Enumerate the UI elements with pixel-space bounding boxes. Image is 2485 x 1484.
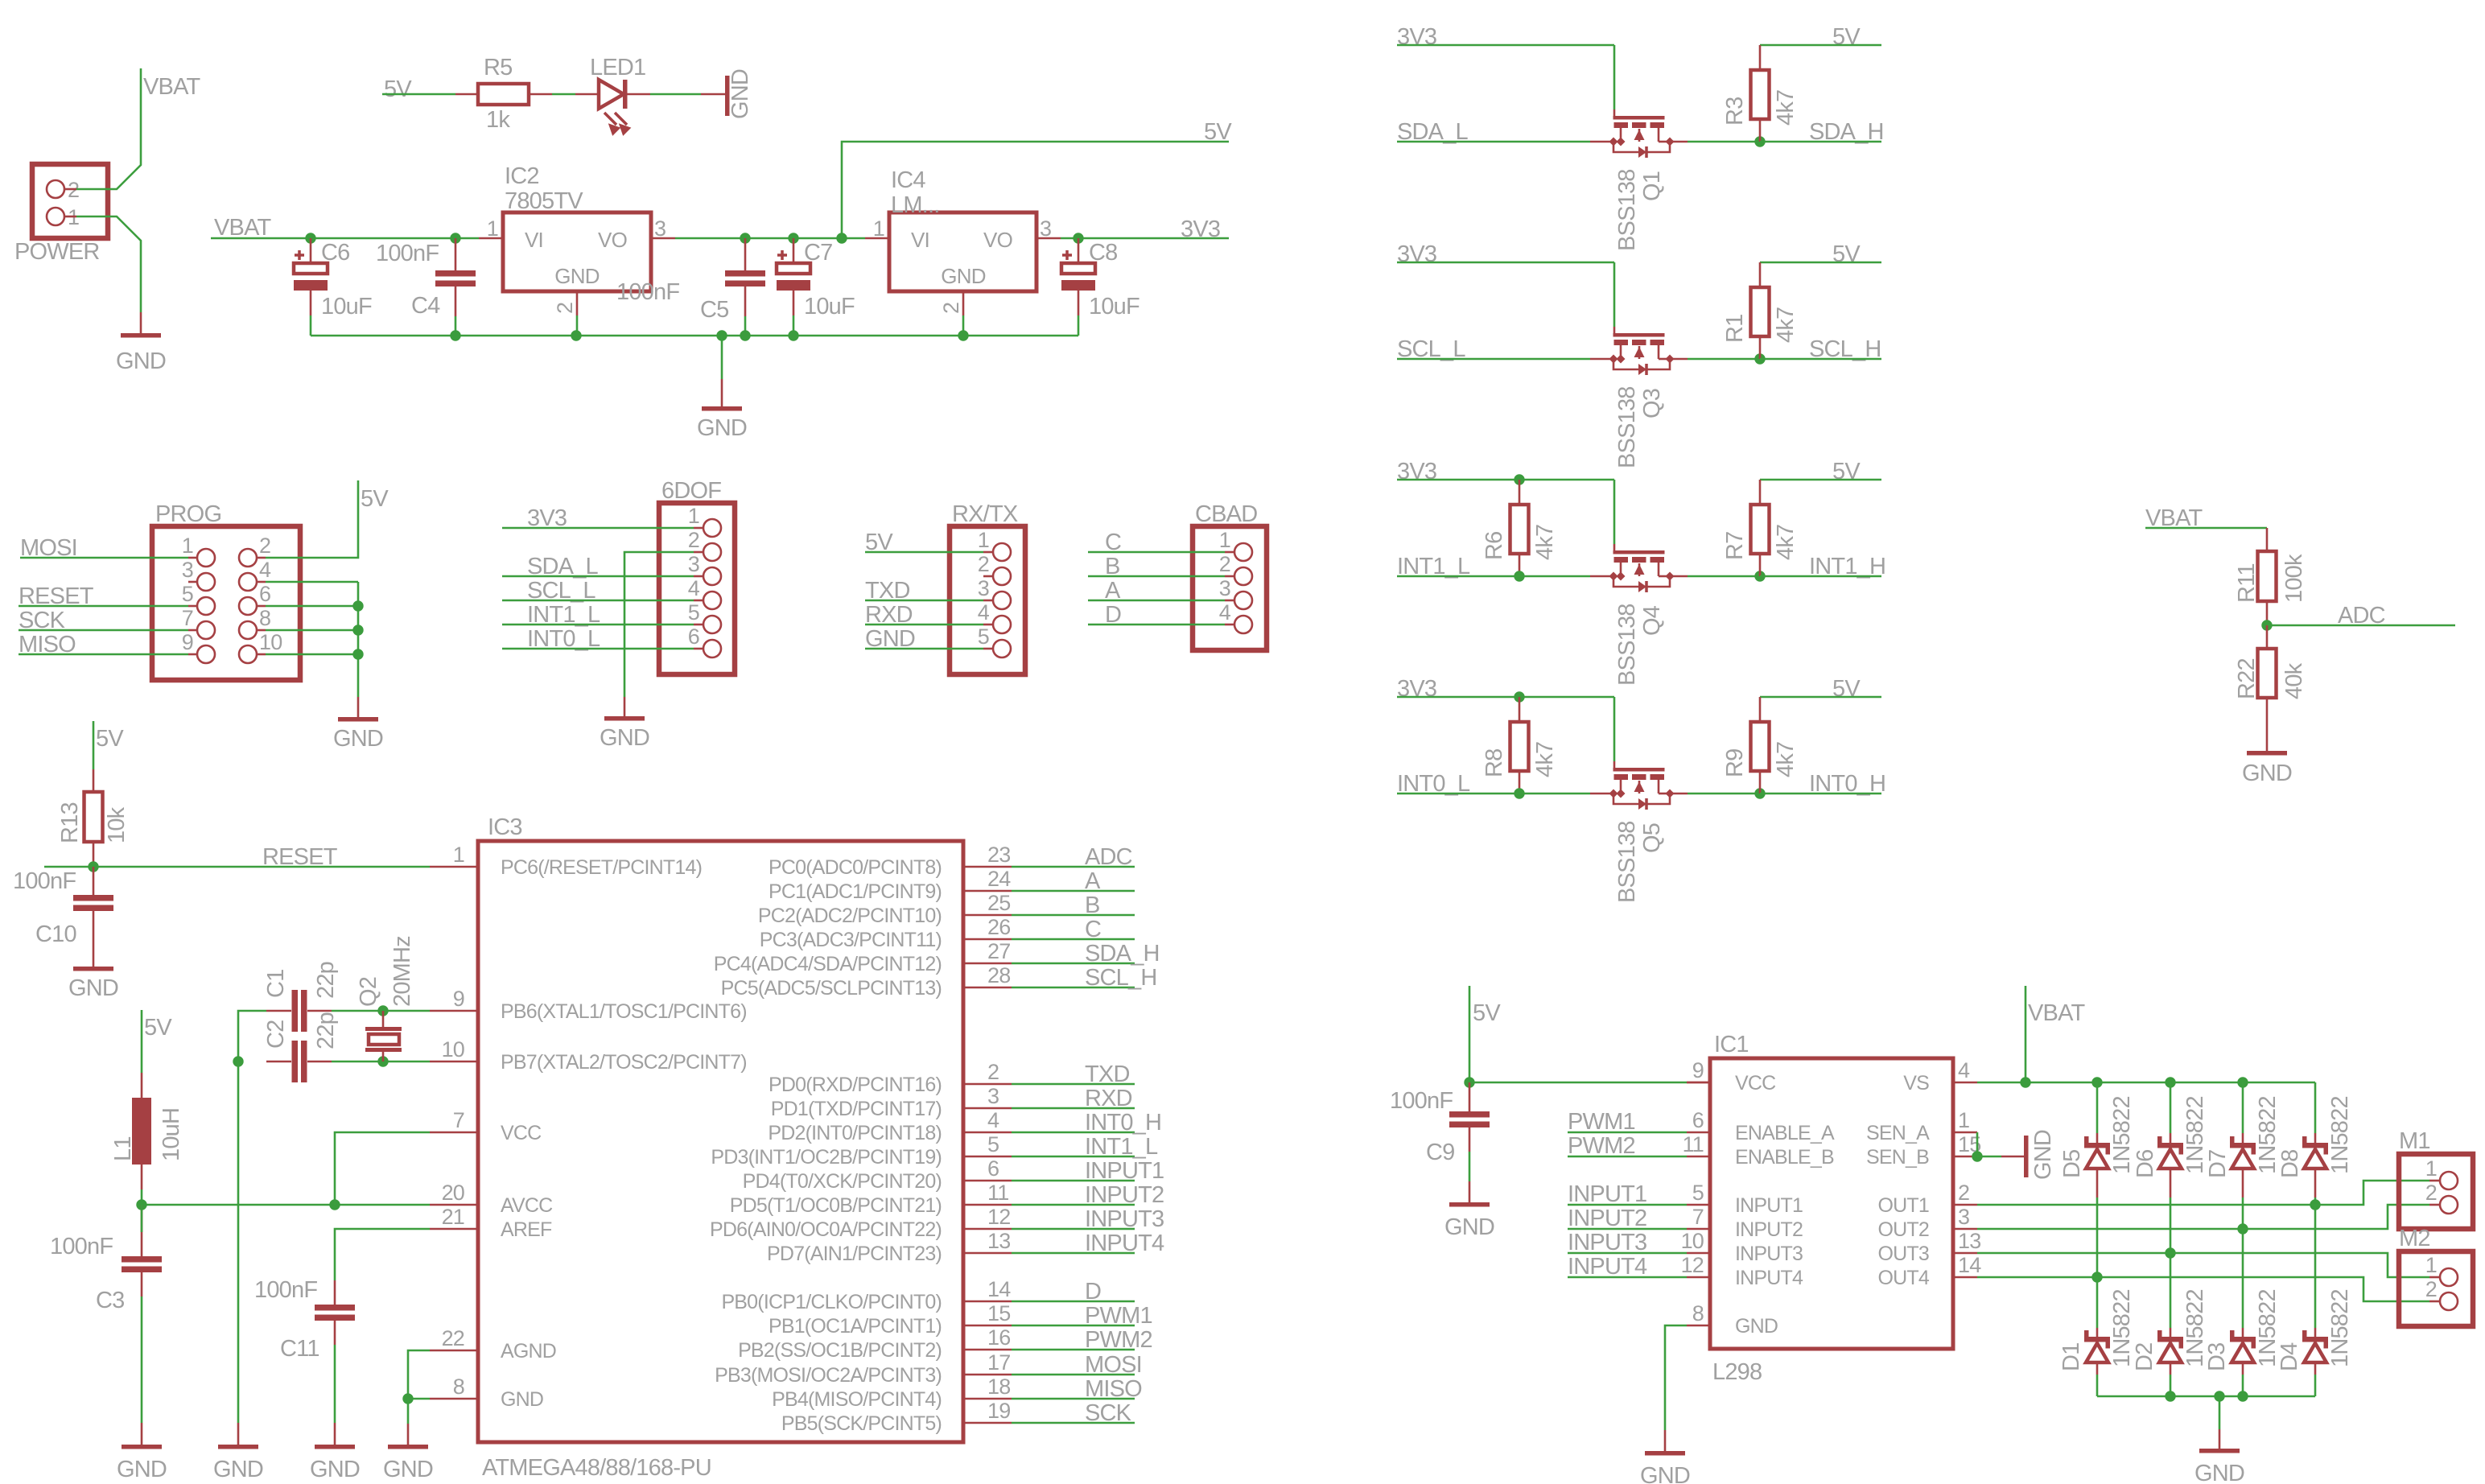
svg-text:27: 27 (987, 939, 1010, 963)
svg-text:8: 8 (1692, 1301, 1704, 1325)
junction R7/INT1_H (1754, 571, 1765, 581)
wire C7 to bottom rail (793, 315, 795, 336)
resistor R11 (2258, 551, 2277, 601)
M2 pin 2 circle (2440, 1292, 2458, 1310)
C3 ground lead (141, 1423, 143, 1445)
junction C4/rail (450, 233, 460, 243)
PROG pin 1 circle (197, 549, 215, 567)
wire VBAT rail to IC2 (211, 237, 479, 240)
wire D8 to OUT row (2314, 1198, 2317, 1205)
svg-text:19: 19 (987, 1399, 1010, 1423)
capacitor C3 top lead (141, 1205, 143, 1232)
PROG pin 9 stub (188, 653, 197, 656)
junction 3V3/R6 (1514, 474, 1524, 484)
svg-text:C10: C10 (35, 921, 76, 947)
svg-text:4: 4 (987, 1108, 999, 1132)
svg-text:9: 9 (182, 630, 193, 654)
diode D6 bottom lead (2170, 1169, 2172, 1198)
IC2 pin 2 (GND) stub (576, 291, 579, 315)
svg-text:24: 24 (987, 867, 1011, 891)
svg-text:GND: GND (310, 1457, 360, 1482)
IC3 pin 25 stub (963, 914, 1012, 917)
capacitor C2 22p (292, 1041, 299, 1082)
C9 ground lead (1469, 1181, 1471, 1202)
svg-text:2: 2 (259, 534, 270, 558)
inductor L1 bottom lead (141, 1165, 143, 1189)
junction R11/R22/ADC (2261, 620, 2272, 630)
IC3 pin 5 stub (963, 1156, 1012, 1158)
supply 5V symbol (IC1) (1469, 986, 1471, 1082)
wire net B (1012, 914, 1135, 917)
LED LED1 cathode lead (627, 93, 650, 96)
diode D4 top lead (2314, 1328, 2317, 1337)
svg-text:8: 8 (259, 606, 270, 630)
junction D2/bottom rail (2165, 1391, 2175, 1401)
svg-text:3: 3 (1219, 576, 1230, 600)
CBAD pin 3 stub (1225, 600, 1234, 602)
svg-text:R1: R1 (1722, 315, 1748, 343)
wire POWER pin2 to VBAT riser (76, 68, 141, 189)
capacitor C3 bottom lead (141, 1272, 143, 1296)
junction D3/bottom rail (2237, 1391, 2248, 1401)
svg-text:7: 7 (453, 1108, 464, 1132)
svg-text:6: 6 (688, 625, 699, 649)
svg-text:Q4: Q4 (1639, 605, 1665, 636)
CBAD pin 2 stub (1225, 575, 1234, 578)
wire SEN_B to GND (1977, 1156, 2001, 1158)
IC3 pin 12 stub (963, 1228, 1012, 1230)
svg-text:Q3: Q3 (1639, 389, 1665, 418)
svg-text:2: 2 (978, 552, 989, 576)
svg-text:SEN_A: SEN_A (1866, 1122, 1930, 1144)
svg-text:7: 7 (1692, 1205, 1704, 1229)
svg-text:INPUT4: INPUT4 (1568, 1254, 1647, 1280)
svg-text:INPUT2: INPUT2 (1085, 1182, 1164, 1208)
svg-text:C1: C1 (263, 970, 289, 998)
junction 3V3/R8 (1514, 691, 1524, 702)
resistor R5 (478, 84, 529, 105)
PROG pin 5 circle (197, 597, 215, 615)
svg-text:INT1_L: INT1_L (1085, 1134, 1158, 1160)
svg-text:D5: D5 (2059, 1150, 2085, 1178)
wire 3V3 to 6DOF pin1 (502, 527, 694, 530)
header RX/TX box (950, 526, 1025, 674)
svg-text:ADC: ADC (2338, 603, 2385, 629)
svg-text:INPUT4: INPUT4 (1735, 1267, 1803, 1289)
wire net RXD (1012, 1107, 1135, 1110)
junction R3/SDA_H (1754, 136, 1765, 146)
IC1 pin 3 stub (1953, 1228, 1977, 1230)
LED LED1 anode lead (575, 93, 599, 96)
microcontroller IC3 box (478, 841, 963, 1442)
svg-text:100nF: 100nF (1390, 1088, 1453, 1114)
diode D1 bottom lead (2096, 1362, 2099, 1375)
svg-text:13: 13 (987, 1229, 1010, 1253)
wire VS rail (1977, 1082, 2315, 1084)
svg-text:15: 15 (987, 1301, 1010, 1325)
wire D5 to OUT row (2096, 1198, 2099, 1277)
svg-text:INPUT2: INPUT2 (1735, 1218, 1803, 1241)
wire L1 to AVCC row (141, 1189, 143, 1205)
capacitor C1 22p (292, 990, 299, 1032)
svg-text:D: D (1085, 1279, 1101, 1305)
junction D5/OUT4 (2091, 1272, 2102, 1282)
diode D7 1N5822 schottky (2230, 1143, 2256, 1148)
svg-text:PD5(T1/OC0B/PCINT21): PD5(T1/OC0B/PCINT21) (730, 1194, 942, 1217)
resistor R22 bottom lead (2266, 698, 2269, 751)
svg-text:17: 17 (987, 1350, 1010, 1375)
svg-text:PWM2: PWM2 (1085, 1327, 1152, 1353)
resistor R6 bottom lead (1519, 554, 1521, 576)
transistor Q5 BSS138 (1613, 768, 1665, 772)
M1 pin 2 circle (2440, 1196, 2458, 1214)
wire 5V rail (INT1_H) (1760, 479, 1881, 481)
IC1 pin 10 stub (1687, 1252, 1710, 1255)
svg-text:Q1: Q1 (1639, 171, 1665, 201)
svg-text:D1: D1 (2058, 1343, 2084, 1371)
capacitor C4 100nF (435, 270, 476, 277)
svg-text:AGND: AGND (501, 1340, 556, 1362)
wire C8 to bottom rail (1078, 315, 1080, 336)
wire PWM2 to IC1 (1568, 1156, 1687, 1158)
resistor R5 left lead (455, 93, 478, 96)
capacitor C5 top lead (744, 238, 747, 270)
IC4 pin 3 stub (1036, 237, 1061, 240)
svg-text:2: 2 (2425, 1277, 2437, 1301)
supply 5V symbol above L1 (141, 1010, 143, 1073)
svg-text:GND: GND (941, 264, 985, 288)
wire gate riser Q3 (1613, 262, 1616, 327)
CBAD pin 2 circle (1234, 567, 1252, 585)
PROG pin 10 circle (239, 645, 257, 663)
IC3 pin 18 stub (963, 1398, 1012, 1400)
M1 pin 1 stub (2429, 1180, 2440, 1182)
wire net TXD (1012, 1083, 1135, 1086)
svg-text:1: 1 (1219, 528, 1230, 552)
wire net SDA_H (1012, 963, 1135, 965)
svg-text:R7: R7 (1722, 532, 1748, 560)
svg-text:INPUT2: INPUT2 (1568, 1206, 1646, 1231)
svg-text:3: 3 (654, 216, 666, 241)
svg-text:RXD: RXD (1085, 1086, 1132, 1111)
svg-text:9: 9 (1692, 1058, 1704, 1082)
resistor R8 (1510, 722, 1529, 771)
junction VBAT/VS (2020, 1077, 2030, 1087)
IC1 ground lead (1664, 1430, 1667, 1451)
capacitor C9 top lead (1469, 1082, 1471, 1111)
PROG pin 4 circle (239, 573, 257, 591)
wire ADC net (2267, 625, 2455, 627)
wire SCL_L (1397, 358, 1590, 361)
resistor R7 (1751, 505, 1770, 554)
junction D7/OUT2 (2237, 1223, 2248, 1234)
svg-text:3V3: 3V3 (1181, 216, 1220, 242)
junction PROG pin10 (352, 649, 363, 659)
M1 pin 2 stub (2429, 1204, 2440, 1206)
svg-text:AREF: AREF (501, 1218, 552, 1241)
wire C9 to GND (1469, 1152, 1471, 1181)
wire VS to D6 (2170, 1082, 2172, 1133)
wire GND pin8 row (408, 1398, 430, 1400)
svg-text:CBAD: CBAD (1195, 501, 1257, 527)
svg-text:POWER: POWER (14, 239, 100, 265)
wire D7 to OUT row (2242, 1198, 2244, 1229)
ground symbol under C11 (315, 1445, 355, 1449)
svg-text:16: 16 (987, 1325, 1010, 1350)
M2 pin 1 stub (2429, 1276, 2440, 1279)
diode D2 bottom lead (2170, 1362, 2172, 1375)
diode D5 bottom lead (2096, 1169, 2099, 1198)
junction D5/VS (2091, 1077, 2102, 1087)
IC3 pin 22 stub (430, 1350, 478, 1352)
svg-text:PC6(/RESET/PCINT14): PC6(/RESET/PCINT14) (501, 856, 702, 879)
wire D2 to bottom rail (2170, 1375, 2172, 1396)
svg-text:MOSI: MOSI (1085, 1352, 1142, 1378)
wire SCL_H (1760, 358, 1881, 361)
SEN GND pin lead (2001, 1156, 2024, 1158)
IC1 pin 7 stub (1687, 1228, 1710, 1230)
svg-text:4k7: 4k7 (1532, 742, 1558, 777)
resistor R7 bottom lead (1759, 554, 1762, 576)
ground symbol under diodes (2199, 1449, 2240, 1453)
wire D6 to OUT row (2170, 1198, 2172, 1253)
wire XTAL2 row (pin 10) (332, 1061, 430, 1063)
PROG pin 10 stub (257, 653, 266, 656)
junction R1/SCL_H (1754, 353, 1765, 364)
svg-text:GND: GND (2242, 761, 2292, 786)
IC1 pin 11 stub (1687, 1156, 1710, 1158)
wire C11 to GND (334, 1345, 336, 1423)
svg-text:R3: R3 (1722, 97, 1748, 126)
svg-text:1: 1 (2425, 1253, 2437, 1277)
wire left bus down to GND (237, 1061, 240, 1423)
IC3 pin 26 stub (963, 938, 1012, 941)
svg-text:10uF: 10uF (804, 294, 855, 319)
wire net PWM1 (1012, 1325, 1135, 1327)
6DOF pin 3 circle (703, 567, 721, 585)
wire 5V to R5 (382, 93, 455, 96)
IC3 pin 23 stub (963, 866, 1012, 868)
wire R5 to LED1 (552, 93, 575, 96)
svg-text:GND: GND (501, 1388, 543, 1411)
svg-text:PWM2: PWM2 (1568, 1133, 1635, 1159)
wire XTAL1 row (pin 9) (332, 1010, 430, 1012)
capacitor C3 100nF (122, 1256, 162, 1263)
svg-text:D4: D4 (2277, 1342, 2302, 1371)
IC2 pin 3 stub (651, 237, 675, 240)
capacitor C6 bottom lead (310, 291, 312, 315)
capacitor C7 bottom lead (793, 291, 795, 315)
wire PROG pins 4,6,8,10 bus (266, 581, 358, 583)
PROG pin 6 circle (239, 597, 257, 615)
diode D3 1N5822 schottky (2230, 1337, 2256, 1342)
wire C1 to left bus (238, 1011, 266, 1061)
resistor R8 bottom lead (1519, 771, 1521, 794)
svg-text:4k7: 4k7 (1773, 525, 1799, 560)
diode D6 1N5822 schottky (2157, 1143, 2183, 1148)
svg-text:7805TV: 7805TV (505, 188, 583, 214)
diode D3 top lead (2242, 1328, 2244, 1337)
wire gate riser Q1 (1613, 45, 1616, 109)
IC3 pin 1 stub (430, 866, 478, 868)
svg-text:1N5822: 1N5822 (2327, 1096, 2353, 1174)
junction C2/left bus (233, 1056, 243, 1066)
wire D4 to bottom rail (2314, 1375, 2317, 1396)
svg-text:PC2(ADC2/PCINT10): PC2(ADC2/PCINT10) (758, 905, 942, 927)
svg-text:GND: GND (333, 726, 383, 752)
IC3 pin 17 stub (963, 1374, 1012, 1376)
junction GND stem/bottom rail (716, 330, 727, 340)
connector M2 box (2399, 1251, 2473, 1326)
svg-text:12: 12 (987, 1205, 1010, 1229)
capacitor C9 bottom lead (1469, 1127, 1471, 1152)
svg-text:IC1: IC1 (1714, 1032, 1749, 1057)
connector POWER box (32, 164, 108, 238)
wire net INPUT3 (1012, 1228, 1135, 1230)
ground symbol under C3 (122, 1445, 162, 1449)
resistor R22 (2258, 649, 2277, 698)
svg-text:1N5822: 1N5822 (2109, 1096, 2135, 1174)
svg-text:4k7: 4k7 (1532, 525, 1558, 560)
junction C6/rail (305, 233, 315, 243)
IC3 pin 11 stub (963, 1204, 1012, 1206)
svg-text:OUT1: OUT1 (1878, 1194, 1929, 1217)
svg-text:C4: C4 (411, 293, 440, 319)
svg-text:GND: GND (554, 264, 599, 288)
svg-text:SEN_B: SEN_B (1866, 1146, 1929, 1169)
wire SDA_L (1397, 141, 1590, 143)
svg-text:14: 14 (987, 1277, 1011, 1301)
svg-text:M1: M1 (2399, 1128, 2430, 1154)
capacitor C11 top lead (334, 1280, 336, 1305)
IC3 pin 20 stub (430, 1204, 478, 1206)
svg-text:BSS138: BSS138 (1614, 386, 1640, 468)
junction IC4 GND/bottom rail (958, 330, 968, 340)
svg-text:PC3(ADC3/PCINT11): PC3(ADC3/PCINT11) (760, 929, 942, 951)
RX/TX pin 2 stub (983, 575, 993, 578)
POWER pin 2 circle (47, 180, 64, 198)
junction R6/INT1_L (1514, 571, 1524, 581)
svg-text:RESET: RESET (262, 844, 338, 870)
svg-text:PD1(TXD/PCINT17): PD1(TXD/PCINT17) (771, 1098, 942, 1120)
wire VS to D8 (2314, 1082, 2317, 1133)
wire D to CBAD pin4 (1088, 624, 1225, 626)
svg-text:ATMEGA48/88/168-PU: ATMEGA48/88/168-PU (482, 1455, 711, 1481)
wire D4 column upper (2314, 1205, 2317, 1328)
wire PROG pin2 to 5V (266, 480, 358, 558)
wire A to CBAD pin3 (1088, 600, 1225, 602)
IC2 pin 1 stub (479, 237, 503, 240)
LED LED1 triangle and bar (599, 80, 624, 109)
PROG pin 8 circle (239, 621, 257, 639)
wire INT1_L (1397, 575, 1590, 578)
wire diode rail to GND (2219, 1396, 2221, 1429)
svg-text:GND: GND (1735, 1315, 1778, 1338)
junction C4/bottom rail (450, 330, 460, 340)
wire TXD to RX/TX pin3 (865, 600, 983, 602)
diode D2 top lead (2170, 1328, 2172, 1337)
crystal Q2 top lead (382, 1011, 385, 1027)
PROG pin 7 circle (197, 621, 215, 639)
CBAD pin 1 stub (1225, 551, 1234, 554)
IC3 pin 19 stub (963, 1422, 1012, 1424)
svg-text:2: 2 (688, 528, 699, 552)
PROG pin 2 circle (239, 549, 257, 567)
svg-text:PC5(ADC5/SCLPCINT13): PC5(ADC5/SCLPCINT13) (721, 977, 942, 1000)
resistor R3 top lead (1759, 45, 1762, 70)
wire net INPUT1 (1012, 1180, 1135, 1182)
resistor R7 top lead (1759, 480, 1762, 505)
wire SEN_A to SEN_B (1976, 1132, 1979, 1156)
wire 5V riser from rail (842, 142, 1229, 238)
header PROG box (152, 526, 300, 680)
wire 5V rail (INT0_H) (1760, 696, 1881, 699)
svg-text:IC2: IC2 (505, 163, 539, 189)
svg-text:C: C (1085, 917, 1101, 942)
svg-text:1: 1 (873, 216, 884, 241)
IC3 pin 8 stub (430, 1398, 478, 1400)
svg-text:B: B (1085, 892, 1100, 918)
wire D1 to bottom rail (2096, 1375, 2099, 1396)
svg-text:21: 21 (442, 1205, 464, 1229)
wire 3V3 rail (1397, 479, 1614, 481)
diode D1 top lead (2096, 1328, 2099, 1337)
diode D8 bottom lead (2314, 1169, 2317, 1198)
svg-text:5: 5 (182, 582, 193, 606)
svg-text:5V: 5V (96, 726, 124, 752)
svg-text:22p: 22p (313, 962, 339, 999)
svg-text:6: 6 (1692, 1108, 1704, 1132)
wire SCL_L to 6DOF pin4 (502, 600, 694, 602)
svg-text:IC4: IC4 (891, 167, 925, 193)
svg-text:22p: 22p (313, 1012, 339, 1049)
left bus ground lead (237, 1423, 240, 1445)
wire diode bottom rail (2097, 1395, 2315, 1398)
svg-text:INT0_H: INT0_H (1085, 1110, 1161, 1136)
PROG pin 3 circle (197, 573, 215, 591)
svg-text:R11: R11 (2234, 563, 2260, 603)
resistor R3 (1751, 70, 1770, 119)
svg-text:2: 2 (987, 1060, 999, 1084)
ground symbol under R22 (2247, 751, 2287, 756)
wire INPUT2 to IC1 (1568, 1228, 1687, 1230)
svg-text:2: 2 (1958, 1181, 1969, 1205)
svg-text:A: A (1085, 868, 1101, 894)
inductor L1 top lead (141, 1073, 143, 1098)
svg-text:TXD: TXD (1085, 1061, 1130, 1087)
diode D5 top lead (2096, 1133, 2099, 1143)
capacitor C5 bottom lead (744, 286, 747, 316)
6DOF pin 5 stub (694, 624, 703, 626)
capacitor C6 polarized (310, 238, 312, 263)
wire SDA_H (1760, 141, 1881, 143)
wire IC2 VO to IC4 VI (675, 237, 865, 240)
resistor R11 bottom lead (2266, 601, 2269, 625)
ground symbol rotated (LED row) (725, 76, 730, 116)
svg-text:10k: 10k (104, 806, 130, 843)
svg-text:PD6(AIN0/OC0A/PCINT22): PD6(AIN0/OC0A/PCINT22) (710, 1218, 942, 1241)
diode D8 1N5822 schottky (2302, 1143, 2328, 1148)
wire INT0_H left (1688, 793, 1760, 795)
ground symbol under crystal bus (218, 1445, 258, 1449)
PROG pin 2 stub (257, 557, 266, 559)
junction D8/OUT1 (2310, 1199, 2320, 1210)
svg-text:10uF: 10uF (321, 294, 372, 319)
svg-text:4k7: 4k7 (1773, 90, 1799, 126)
RX/TX pin 1 stub (983, 551, 993, 554)
6DOF pin 1 circle (703, 519, 721, 537)
svg-text:100nF: 100nF (50, 1234, 113, 1259)
